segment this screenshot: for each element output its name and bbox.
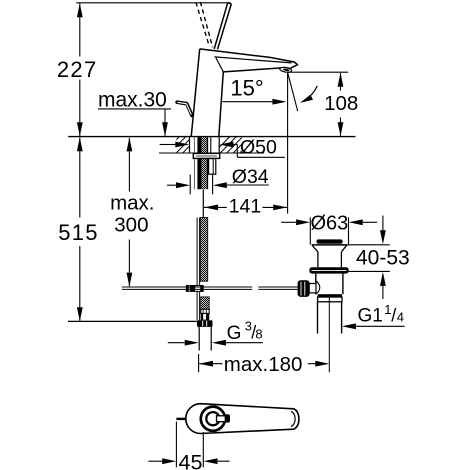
hose connector nut [197,320,213,327]
svg-text:max.: max. [110,192,154,215]
dia34 arrows [167,184,176,186]
dimension 40-53 top arrow [382,216,384,232]
handle cartridge inner ring [206,412,219,425]
drain flange [312,244,347,246]
dia34 extension lines [189,175,191,195]
spout aerator [279,67,292,73]
G3/8 connector tube [198,327,200,351]
svg-text:4: 4 [397,310,404,325]
svg-text:Ø50: Ø50 [240,137,277,159]
svg-text:Ø63: Ø63 [310,212,348,234]
mounting stud [209,159,216,175]
handle pin stub [217,416,226,422]
side joystick lever [177,102,192,115]
dia63 arrows [281,221,296,223]
flexible hose lower [201,297,210,309]
dimension line 515 [79,138,81,218]
handle left tick [176,418,186,420]
svg-text:8: 8 [255,326,262,341]
dimension line 108 [340,73,342,91]
max.180 extension line left [198,354,200,372]
40-53 top reference line [347,244,390,246]
vertical reference line from spout [287,72,289,213]
dimension 40-53 bottom arrow [382,286,384,300]
15 deg arc arrow [304,86,318,101]
dimension line max.180 [199,363,222,365]
dimension line max.300 [128,138,130,192]
dimension line 45 [148,460,162,462]
svg-text:227: 227 [57,57,98,82]
riser tube below tee [196,292,198,320]
svg-text:141: 141 [229,196,262,218]
drain coupling [318,297,342,302]
dia50 arrows [160,144,176,146]
drain locknut [309,267,348,273]
flexible hose upper [200,218,207,282]
pop-up rod clamp tee [186,285,204,292]
rod knob stem [309,284,316,293]
max.30 arrow to deck [164,109,166,136]
15 deg arrow line [222,101,273,103]
hose union upper [201,313,210,320]
deck hatching right [214,136,263,153]
drain body bottom ring [318,294,342,297]
dimension line 141 [204,206,227,208]
spout height reference line [288,71,349,73]
G3/8 arrows [168,342,185,344]
deck hole edges [189,137,191,153]
15 deg slanted stream line [288,72,298,111]
45 extension lines [175,422,177,468]
pop-up rod knob [298,280,310,297]
dia63 extension lines [309,217,311,244]
deck line [68,136,355,138]
G1 1/4 leader line [356,325,405,327]
svg-text:300: 300 [114,213,148,236]
faucet body outline [191,49,200,137]
handle top view outline [186,404,299,434]
svg-text:108: 108 [324,92,358,115]
mounting flange washer [193,153,219,158]
svg-text:15°: 15° [230,75,263,100]
lever dashed alternate position [196,2,210,46]
lever solid [214,3,228,49]
svg-text:45: 45 [179,450,203,470]
svg-text:40-53: 40-53 [356,247,410,270]
handle inner contour [291,411,295,426]
svg-text:/: / [391,305,396,325]
drain plug cap [317,239,343,243]
body top inner lines [214,57,291,63]
drain tailpipe [317,302,319,334]
supply pipe line [202,190,204,218]
drain center line [328,297,330,373]
pop-up rod [122,286,252,288]
svg-text:max.30: max.30 [98,89,167,112]
svg-text:G: G [227,323,242,344]
dimension line 227 (vertical) [79,3,81,56]
515 bottom reference line [68,320,197,322]
drain body [315,274,317,295]
top reference line (lever top level) [76,2,230,4]
deck bottom line [159,152,264,154]
svg-text:Ø34: Ø34 [232,166,269,188]
svg-text:G1: G1 [358,305,383,326]
deck hatching left [157,136,206,153]
40-53 bottom reference line [349,270,390,272]
handle cartridge outer ring [201,407,225,431]
svg-text:515: 515 [58,220,99,245]
hose collar [201,309,210,313]
pop-up rod riser tube [196,218,198,286]
threaded shank [193,137,195,189]
svg-text:max.180: max.180 [224,353,303,376]
